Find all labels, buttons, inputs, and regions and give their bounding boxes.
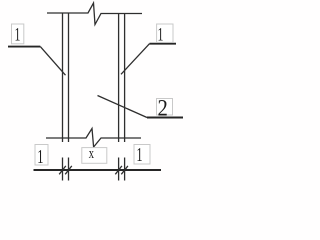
svg-text:2: 2: [158, 96, 168, 121]
svg-text:x: x: [89, 146, 95, 162]
svg-text:1: 1: [136, 143, 142, 166]
svg-text:1: 1: [158, 25, 164, 45]
svg-text:1: 1: [15, 25, 21, 45]
svg-text:1: 1: [37, 145, 43, 168]
